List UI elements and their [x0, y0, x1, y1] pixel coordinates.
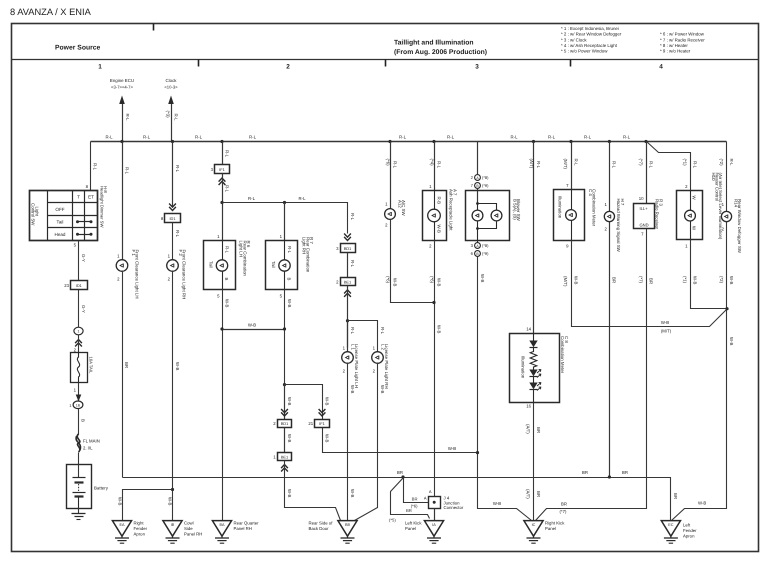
wire BE1 to license lamp junction — [347, 286, 349, 348]
svg-text:BE1: BE1 — [344, 280, 351, 285]
unit R3 radio receiver — [634, 199, 664, 230]
node bus junction A12 — [388, 140, 391, 143]
svg-text:W-B: W-B — [324, 434, 329, 443]
svg-text:R-L: R-L — [350, 327, 355, 335]
svg-text:BR: BR — [406, 508, 412, 513]
svg-text:Apron: Apron — [683, 534, 695, 539]
footnote legend — [561, 26, 705, 54]
svg-text:BA: BA — [219, 523, 225, 527]
svg-text:(M/T): (M/T) — [661, 329, 672, 334]
wire distribution to lamp R6 — [217, 203, 229, 254]
svg-text:ILL+: ILL+ — [640, 206, 649, 211]
svg-text:Left Kick: Left Kick — [405, 521, 422, 526]
svg-text:Engine ECU: Engine ECU — [110, 78, 134, 83]
wire bus to connector ID1 second — [169, 142, 180, 211]
svg-text:Fender: Fender — [134, 526, 148, 531]
svg-text:W-B: W-B — [287, 489, 292, 498]
svg-text:Control SW: Control SW — [31, 203, 36, 226]
svg-text:Tail: Tail — [271, 261, 276, 268]
svg-text:BR: BR — [536, 427, 541, 433]
svg-text:R-L: R-L — [350, 260, 355, 268]
wire C4 W-B to R14 line — [563, 241, 728, 334]
node bus junction R3 — [644, 140, 647, 143]
svg-text:Illumination: Illumination — [558, 196, 563, 219]
svg-text:W-B: W-B — [437, 278, 442, 287]
header band line — [12, 59, 759, 61]
switch H-8 light control SW (headlight dimmer SW) — [30, 186, 109, 241]
svg-text:BR: BR — [622, 470, 628, 475]
svg-text:OFF: OFF — [55, 207, 64, 212]
svg-text:IB: IB — [171, 523, 175, 527]
wire BD1 to BE1 R-L — [348, 253, 356, 278]
wire fuse to node 1B — [74, 383, 82, 402]
svg-text:Cowl: Cowl — [184, 521, 194, 526]
svg-text:1B: 1B — [76, 403, 81, 407]
svg-text:(A/T): (A/T) — [529, 159, 534, 169]
node Engine ECU output — [110, 78, 134, 142]
svg-text:10: 10 — [639, 196, 644, 201]
svg-text:R-L: R-L — [548, 135, 556, 140]
svg-text:License Plate Light LH: License Plate Light LH — [354, 344, 359, 388]
wire lamp L1 to ground BB — [343, 363, 355, 521]
node junction H7 BR — [608, 475, 611, 478]
svg-text:W-B: W-B — [287, 299, 292, 308]
svg-text:BR: BR — [397, 470, 403, 475]
svg-text:BD1: BD1 — [281, 421, 289, 426]
ground IA — [405, 521, 444, 544]
wire R3 node to heater H10 — [647, 142, 698, 191]
wire R7 to connector BD1 — [281, 385, 292, 420]
svg-text:Left: Left — [683, 523, 691, 528]
svg-text:W-B: W-B — [729, 337, 734, 346]
wire H10 to R14 W-B line — [682, 240, 727, 309]
svg-text:* 1 : Except Indonesia, Brune: * 1 : Except Indonesia, Brunei — [561, 26, 619, 31]
node Clock output — [164, 78, 178, 142]
svg-text:W-B: W-B — [224, 299, 229, 308]
header label Power Source — [55, 45, 101, 52]
page title text — [10, 7, 92, 17]
svg-text:IC: IC — [532, 523, 536, 527]
svg-text:GND: GND — [640, 223, 649, 228]
wire lamp F2 to ground IB — [167, 271, 180, 521]
svg-text:Light LH: Light LH — [239, 241, 244, 257]
lamp unit H10 heater control illumination — [677, 173, 724, 240]
column tick 2-3 — [385, 60, 387, 67]
svg-text:Front Clearance Light LH: Front Clearance Light LH — [134, 250, 139, 299]
node junction EA branch — [171, 488, 174, 491]
svg-text:Clock: Clock — [166, 78, 178, 83]
svg-text:* 9 : w/o Heater: * 9 : w/o Heater — [660, 49, 691, 54]
svg-text:Panel RH: Panel RH — [184, 532, 202, 537]
node junction R6 W-B link — [220, 327, 223, 330]
wire BR ground bus — [123, 470, 678, 521]
node junction license lamps — [346, 319, 349, 322]
svg-text:ET: ET — [88, 195, 94, 200]
svg-text:W-B: W-B — [480, 274, 485, 283]
svg-text:A: A — [424, 495, 427, 500]
bus wire color labels R-L — [106, 135, 631, 140]
lamp F2 front clearance light RH — [167, 250, 187, 300]
svg-text:W-B: W-B — [350, 489, 355, 498]
pin circle B6 (*9) — [471, 251, 489, 257]
svg-text:IA: IA — [432, 523, 436, 527]
svg-text:8 AVANZA / X ENIA: 8 AVANZA / X ENIA — [10, 7, 92, 17]
svg-text:R-L: R-L — [249, 135, 257, 140]
wire lamp A7 down — [429, 241, 442, 497]
wire distribution to lamp R7 — [280, 203, 292, 254]
svg-text:14: 14 — [526, 327, 531, 332]
svg-text:T: T — [77, 195, 80, 200]
wire main R-L bus — [91, 141, 727, 143]
svg-text:23: 23 — [64, 283, 69, 288]
svg-text:Illumination: Illumination — [520, 356, 525, 379]
svg-text:2. 0L: 2. 0L — [83, 446, 93, 451]
illuminated switch R14 rear window defogger SW — [721, 199, 742, 254]
wire BE1 to ground BB — [285, 461, 341, 521]
svg-text:(*6): (*6) — [429, 276, 434, 284]
connector BD1 (pin 2) — [273, 420, 291, 428]
svg-text:(*2): (*2) — [719, 276, 724, 284]
wire battery to ground — [78, 509, 80, 514]
pin circle A3 (*8) — [471, 243, 489, 249]
svg-text:* 8 : w/ Heater: * 8 : w/ Heater — [660, 43, 688, 48]
svg-text:W-B: W-B — [350, 385, 355, 394]
pin circle B7 (*9) — [471, 183, 489, 189]
svg-text:EA: EA — [119, 523, 125, 527]
svg-text:R-L: R-L — [106, 135, 114, 140]
wire node 1B to fusible link — [79, 409, 86, 435]
svg-text:* 6 : w/ Power Window: * 6 : w/ Power Window — [660, 32, 705, 37]
svg-text:R-L: R-L — [536, 161, 541, 169]
wire fusible link to battery — [78, 453, 80, 478]
node bus junction A7 — [432, 140, 435, 143]
wire A12 to W-B junction — [385, 220, 434, 303]
svg-text:R-L: R-L — [225, 150, 230, 158]
svg-text:W-B: W-B — [448, 446, 456, 451]
svg-text:Panel: Panel — [545, 526, 556, 531]
svg-text:R-L: R-L — [225, 246, 230, 254]
svg-text:A/C SW: A/C SW — [401, 200, 406, 216]
ground IC — [524, 521, 565, 544]
svg-text:Back Door: Back Door — [309, 526, 330, 531]
wire R-L distribution horizontal — [223, 196, 356, 234]
svg-text:(*5): (*5) — [389, 518, 396, 523]
svg-text:BR: BR — [673, 493, 678, 499]
wire BR to junction connector J4 — [404, 478, 429, 509]
svg-text:(*1): (*1) — [682, 159, 687, 167]
svg-text:10A TAIL: 10A TAIL — [89, 357, 94, 375]
svg-text:R-L: R-L — [175, 165, 180, 173]
arrow out of IF1 — [219, 178, 226, 185]
node junction R7 branch — [283, 201, 286, 204]
wire bus to switch A12 — [385, 142, 398, 210]
svg-text:Light RH: Light RH — [302, 237, 307, 254]
svg-text:(From Aug. 2006 Production): (From Aug. 2006 Production) — [394, 49, 487, 56]
svg-text:(M/T): (M/T) — [563, 276, 568, 287]
svg-text:W-B: W-B — [493, 501, 501, 506]
svg-text:BR: BR — [582, 470, 588, 475]
wire lamp L2 to ground BB — [355, 363, 385, 521]
svg-text:A: A — [429, 489, 432, 494]
svg-text:W-B: W-B — [117, 497, 122, 506]
svg-text:B: B — [287, 278, 292, 281]
svg-text:Battery: Battery — [94, 486, 109, 491]
svg-text:Head: Head — [55, 232, 66, 237]
connector BE1 (pin 1) — [273, 453, 291, 461]
svg-text:IF1: IF1 — [319, 421, 325, 426]
svg-text:License Plate Light RH: License Plate Light RH — [384, 344, 389, 389]
svg-text:Rear Quarter: Rear Quarter — [234, 521, 260, 526]
svg-text:R-L: R-L — [93, 163, 98, 171]
svg-text:R-L: R-L — [248, 196, 256, 201]
node bus junction C4 — [569, 140, 572, 143]
svg-text:* 7 : w/ Radio Receiver: * 7 : w/ Radio Receiver — [660, 37, 705, 42]
svg-text:W-B: W-B — [287, 434, 292, 443]
wire bus to switch R14 — [719, 142, 734, 212]
node junction blower/IF1 W-B — [476, 451, 479, 454]
svg-text:(*6): (*6) — [385, 276, 390, 284]
meter C8 combination meter illumination — [510, 334, 569, 403]
svg-text:BR: BR — [412, 497, 418, 502]
lamp L2 license plate light RH — [372, 344, 390, 389]
wire ID1 to lamp F2 — [168, 223, 180, 261]
node junction A12/A7 W-B — [432, 301, 435, 304]
svg-text:Panel: Panel — [405, 526, 416, 531]
wire bus to connector IF1 — [223, 142, 230, 165]
ground EA — [112, 521, 147, 544]
node junction 1 (oval) — [74, 327, 83, 335]
diagram title — [394, 40, 487, 57]
node junction R7 ground split — [283, 327, 286, 386]
svg-text:BR: BR — [124, 362, 129, 368]
svg-text:(*9): (*9) — [482, 251, 489, 256]
wire bus to lamp F1 — [117, 142, 129, 261]
illuminated switch A12 A/C SW — [385, 200, 406, 219]
svg-text:(*8): (*8) — [482, 243, 489, 248]
svg-text:R-L: R-L — [125, 167, 130, 175]
svg-text:(*3): (*3) — [166, 111, 171, 119]
svg-text:(*2): (*2) — [719, 159, 724, 167]
wire C8 to ground IC — [526, 403, 541, 521]
svg-text:R-L: R-L — [511, 135, 519, 140]
wire BR *5 direct to ground IA — [389, 478, 430, 523]
connector BD1 (pin 3) — [336, 244, 355, 253]
svg-text:BE1: BE1 — [281, 454, 288, 459]
svg-text:21: 21 — [308, 421, 313, 426]
wire blower W-B down — [478, 257, 532, 521]
svg-text:R-L: R-L — [299, 196, 307, 201]
tick on top border — [153, 24, 155, 31]
svg-text:(*9): (*9) — [482, 183, 489, 188]
lamp unit R7 rear combination light RH — [266, 237, 315, 290]
svg-text:R-L: R-L — [437, 161, 442, 169]
wire node to fuse — [74, 335, 79, 353]
svg-text:R-L: R-L — [287, 246, 292, 254]
svg-text:IF1: IF1 — [219, 167, 225, 172]
svg-text:R-L: R-L — [692, 161, 697, 169]
svg-text:Apron: Apron — [134, 532, 146, 537]
svg-text:W-B: W-B — [380, 385, 385, 394]
wire branch to lamp L2 — [348, 321, 386, 353]
lamp F1 front clearance light LH — [116, 250, 139, 299]
svg-text:* 2 : w/ Rear Window Defogger: * 2 : w/ Rear Window Defogger — [561, 32, 622, 37]
svg-text:(*7): (*7) — [560, 509, 567, 514]
svg-text:BD1: BD1 — [344, 246, 352, 251]
connector ID1 (pin 23) — [64, 281, 87, 290]
svg-text:(*1): (*1) — [682, 276, 687, 284]
svg-text:R-L: R-L — [225, 185, 230, 193]
svg-text:Combination Meter: Combination Meter — [591, 189, 596, 227]
wire J4 to ground IA — [434, 509, 436, 521]
svg-text:16: 16 — [526, 404, 531, 409]
svg-text:BR: BR — [612, 277, 617, 283]
svg-text:Combination Meter: Combination Meter — [560, 336, 565, 374]
node bus junction F1 — [120, 140, 123, 143]
svg-text:(A/T): (A/T) — [526, 489, 531, 499]
svg-text:B: B — [81, 419, 86, 422]
svg-text:Taillight and Illumination: Taillight and Illumination — [394, 40, 474, 47]
node connector 1B (oval) — [69, 401, 83, 409]
ground EC — [661, 521, 697, 544]
svg-text:W-B: W-B — [324, 397, 329, 406]
svg-text:(A/T): (A/T) — [526, 424, 531, 434]
svg-text:W-B: W-B — [692, 276, 697, 285]
node junction R-L distribution — [220, 201, 223, 204]
svg-text:Rear Side of: Rear Side of — [309, 521, 334, 526]
node bus junction H7 — [608, 140, 611, 143]
svg-text:(*6): (*6) — [385, 159, 390, 167]
meter C4 combination meter illumination — [554, 189, 597, 241]
svg-text:Connector: Connector — [444, 505, 464, 510]
svg-text:R-B: R-B — [436, 197, 441, 205]
node bus junction R6 feed — [220, 140, 223, 143]
svg-text:Panel RH: Panel RH — [234, 526, 252, 531]
svg-text:BR: BR — [648, 278, 653, 284]
svg-text:EC: EC — [668, 523, 674, 527]
svg-text:R-L: R-L — [143, 135, 151, 140]
svg-text:Fender: Fender — [683, 528, 697, 533]
svg-text:W-B: W-B — [167, 497, 172, 506]
svg-text:G-Y: G-Y — [81, 305, 86, 313]
lamp L1 license plate light LH — [342, 344, 360, 388]
fuse 10A TAIL — [71, 353, 94, 383]
wire junction to lamp L1 — [343, 321, 355, 353]
svg-text:Front Clearance Light RH: Front Clearance Light RH — [182, 250, 187, 300]
svg-text:(*7): (*7) — [638, 276, 643, 284]
svg-text:ID1: ID1 — [169, 216, 175, 221]
ground IB — [163, 521, 202, 544]
arrow out of BE1 R-L — [344, 290, 351, 297]
svg-text:3: 3 — [475, 64, 479, 71]
arrow out of BE1 — [281, 465, 288, 472]
column tick 3-4 — [570, 60, 572, 67]
pin circle A2 (*8) — [471, 175, 489, 181]
column tick 1-2 — [198, 60, 200, 67]
svg-text:R-L: R-L — [350, 213, 355, 221]
svg-text:R-L: R-L — [399, 135, 407, 140]
ground BB — [309, 521, 358, 544]
ground under battery — [72, 514, 86, 520]
illuminated switch B5 blower SW — [466, 191, 522, 243]
wire R14 to ground EC — [672, 222, 734, 521]
svg-text:* 3 : w/ Clock: * 3 : w/ Clock — [561, 37, 587, 42]
svg-text:BR: BR — [561, 501, 567, 506]
wire BD1 to BE1 — [285, 428, 292, 453]
svg-text:R-L: R-L — [584, 135, 592, 140]
svg-text:Blower SW: Blower SW — [516, 199, 521, 222]
svg-text:Ash Receptacle Light: Ash Receptacle Light — [449, 189, 454, 231]
svg-text:R-L: R-L — [573, 159, 578, 167]
svg-text:R-L: R-L — [125, 114, 130, 122]
svg-text:R-L: R-L — [174, 114, 179, 122]
svg-text:W-B: W-B — [698, 501, 706, 506]
wire bus to lamp A7 — [429, 142, 442, 191]
wire pin5 to connector ID1 — [74, 241, 86, 281]
wire lamp R7 down — [280, 290, 292, 385]
wire lamp F1 to BR ground bus — [117, 271, 129, 478]
node bus junction F2 — [171, 140, 174, 143]
wire bus to meter C8 — [526, 142, 541, 334]
wire ID1 to junction node — [79, 290, 87, 328]
wire H7 to BR bus — [605, 222, 617, 478]
ground BA — [212, 521, 259, 544]
svg-text:2: 2 — [286, 64, 290, 71]
svg-text:BR: BR — [536, 491, 541, 497]
junction connector J4 — [429, 496, 464, 511]
svg-text:Power Source: Power Source — [55, 45, 101, 52]
svg-text:Tail: Tail — [209, 261, 214, 268]
wire R7 branch to IF1 ground side — [285, 385, 330, 420]
svg-text:BB: BB — [345, 523, 351, 527]
svg-text:W-B: W-B — [436, 225, 441, 234]
svg-text:ID1: ID1 — [76, 283, 82, 288]
battery — [67, 465, 109, 509]
svg-text:Rear Window Defogger SW: Rear Window Defogger SW — [737, 199, 742, 254]
svg-text:R-L: R-L — [612, 161, 617, 169]
node junction R14/H10/C4 — [725, 307, 728, 310]
svg-text:R-L: R-L — [648, 161, 653, 169]
svg-text:* 4 : w/ Ash Receptacle Light: * 4 : w/ Ash Receptacle Light — [561, 43, 618, 48]
wire IF1 ground side to blower W-B — [323, 428, 478, 453]
lamp unit A7 ash receptacle light — [423, 189, 458, 241]
svg-text:* 5 : w/o Power Window: * 5 : w/o Power Window — [561, 49, 608, 54]
svg-text:W-B: W-B — [729, 276, 734, 285]
svg-text:W-B: W-B — [573, 276, 578, 285]
svg-text:Hazard Warning Signal SW: Hazard Warning Signal SW — [616, 199, 621, 253]
svg-text:Right Kick: Right Kick — [545, 521, 565, 526]
svg-text:4: 4 — [659, 64, 663, 71]
svg-text:(M/T): (M/T) — [563, 159, 568, 170]
svg-text:R-L: R-L — [195, 135, 203, 140]
svg-text:Right: Right — [134, 521, 145, 526]
svg-text:R-L: R-L — [729, 159, 734, 167]
svg-text:R-L: R-L — [623, 135, 631, 140]
svg-text:W-B: W-B — [248, 322, 256, 327]
svg-text:(*6): (*6) — [411, 504, 418, 509]
svg-text:Headlight Dimmer SW: Headlight Dimmer SW — [99, 186, 104, 227]
svg-text:R-L: R-L — [393, 161, 398, 169]
wire bus to meter C4 — [563, 142, 579, 190]
svg-text:1: 1 — [78, 330, 80, 334]
svg-text:G-Y: G-Y — [81, 254, 86, 262]
arrow into node 1 — [75, 340, 82, 347]
wire branch to ground EA — [117, 490, 172, 521]
svg-text:Tail: Tail — [57, 220, 64, 225]
connector IF1 (pin 21) — [308, 420, 329, 428]
svg-text:(*4): (*4) — [429, 159, 434, 167]
svg-text:W-B: W-B — [436, 325, 441, 334]
arrow into BD1 — [344, 234, 351, 241]
